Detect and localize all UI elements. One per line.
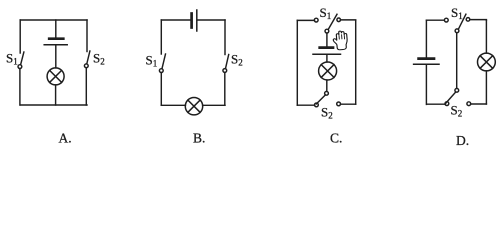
wire D right upper: [485, 20, 487, 53]
wire C left side: [296, 20, 298, 105]
wire A middle top: [55, 20, 57, 37]
lamp C cross: [321, 65, 334, 78]
switch S2 blade (B): [226, 55, 229, 69]
switch S2 blade (D): [445, 92, 456, 104]
wire D left upper: [425, 20, 427, 57]
svg-text:D.: D.: [456, 133, 469, 148]
wire B left lower: [160, 73, 162, 106]
wire C right side: [355, 20, 357, 104]
lamp A circle: [47, 68, 64, 85]
battery C short thick plate: [320, 46, 333, 49]
wire D middle: [456, 33, 458, 89]
node circle C bottom-right terminal: [337, 102, 341, 106]
lamp D cross: [480, 56, 493, 69]
node circle D top-right terminal: [466, 18, 470, 22]
battery B long thin plate: [196, 10, 198, 31]
switch S2 pivot circle (C): [315, 103, 319, 107]
wire D left lower: [425, 65, 427, 104]
wire C middle upper: [326, 33, 328, 46]
switch S1 pivot circle (B): [159, 69, 163, 73]
wire A left upper: [19, 20, 21, 53]
wire C top left: [297, 19, 314, 21]
wire C bottom left: [297, 104, 314, 106]
switch S1 blade (B): [162, 54, 166, 69]
switch S2 blade (C): [316, 95, 325, 104]
wire A left lower: [19, 69, 21, 105]
wire A bottom: [20, 104, 87, 106]
switch S1 pivot circle (D): [455, 29, 459, 33]
switch S2 top circle (D): [455, 88, 459, 92]
switch S1 pivot circle: [18, 65, 22, 69]
wire B top left: [161, 19, 190, 21]
battery C long thin plate: [313, 53, 341, 55]
wire B right upper: [224, 20, 226, 55]
wire A middle mid: [55, 46, 57, 68]
lamp C circle: [319, 62, 337, 80]
wire D bottom right: [471, 103, 487, 105]
wire B bottom right: [203, 104, 225, 106]
switch S2 pivot circle (D): [445, 102, 449, 106]
svg-text:B.: B.: [193, 131, 205, 146]
battery A long thin plate: [44, 44, 67, 46]
wire C middle mid: [326, 55, 328, 62]
wire D bottom left: [427, 103, 445, 105]
wire A right lower: [85, 68, 87, 105]
wire C top right: [341, 19, 356, 21]
lamp D circle: [478, 53, 496, 71]
wire B top right: [198, 19, 225, 21]
wire B right lower: [224, 73, 226, 106]
wire C middle lower: [326, 80, 328, 91]
node circle D top-left terminal: [444, 18, 448, 22]
switch S1 blade (C): [328, 14, 337, 29]
battery B short thick plate: [190, 14, 193, 28]
wire D right lower: [485, 71, 487, 104]
wire A top: [20, 19, 87, 21]
switch S2 pivot circle: [84, 64, 88, 68]
svg-text:A.: A.: [59, 131, 72, 146]
battery D short thick plate: [419, 57, 434, 60]
wire D top left: [427, 19, 445, 21]
node circle D bottom-right terminal: [467, 102, 471, 106]
switch S2 pivot circle (B): [223, 69, 227, 73]
battery D long thin plate: [414, 63, 439, 65]
switch S2 top circle (C): [325, 91, 329, 95]
wire B left upper: [160, 20, 162, 54]
lamp A cross: [50, 70, 62, 82]
battery A short thick plate: [49, 37, 63, 40]
node circle C top-left terminal: [314, 18, 318, 22]
node circle C top-right terminal: [337, 18, 341, 22]
lamp B cross: [188, 100, 200, 112]
wire B bottom left: [161, 104, 185, 106]
svg-text:C.: C.: [330, 131, 342, 146]
lamp B circle: [185, 98, 202, 115]
wire D top right: [470, 19, 487, 22]
wire C bottom right: [341, 103, 356, 105]
switch S1 blade: [21, 52, 24, 65]
wire A right upper: [86, 20, 88, 52]
wire A middle bottom: [55, 85, 57, 105]
switch S1 pivot circle (C): [325, 29, 329, 33]
switch S1 blade (D): [458, 14, 466, 29]
hand cursor icon: [333, 31, 348, 51]
switch S2 blade: [87, 51, 90, 64]
